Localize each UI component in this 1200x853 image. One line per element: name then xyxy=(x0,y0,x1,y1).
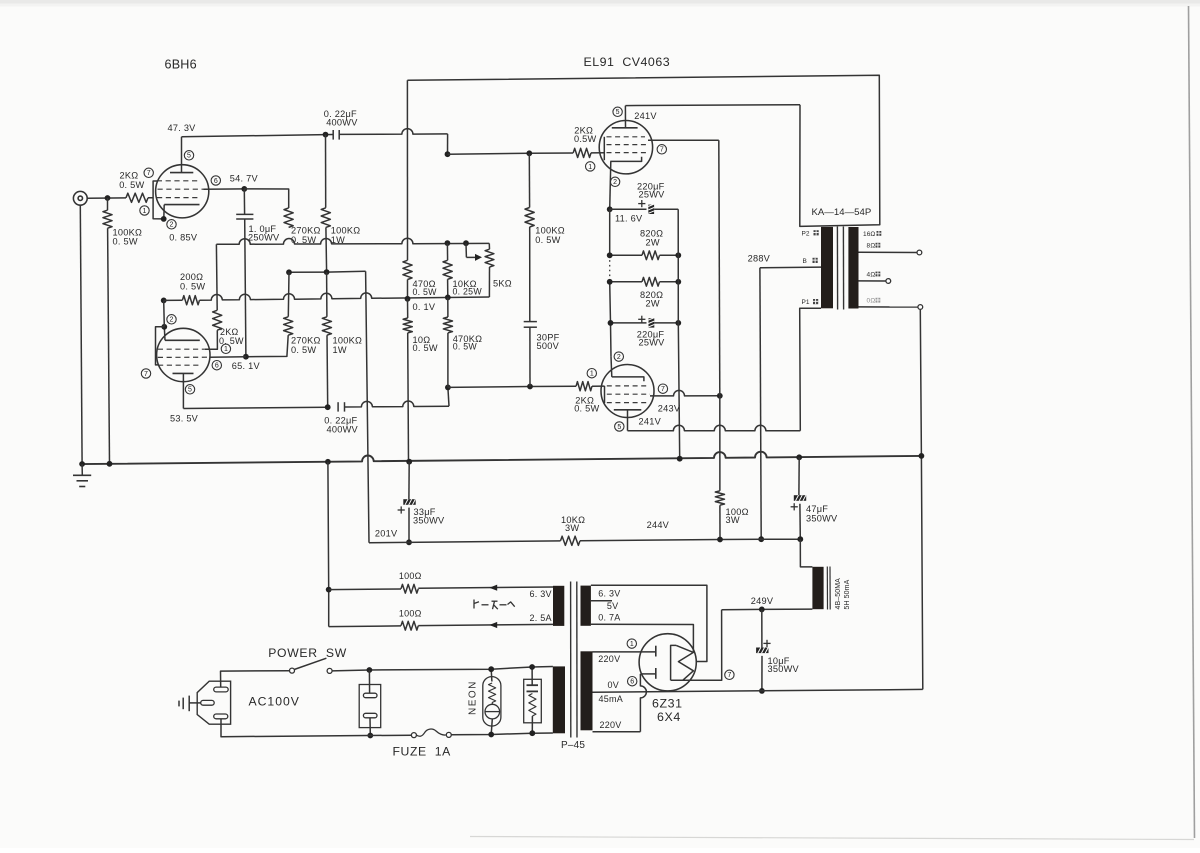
svg-text:1: 1 xyxy=(590,371,594,378)
svg-text:7: 7 xyxy=(660,147,664,154)
svg-text:270KΩ: 270KΩ xyxy=(291,225,321,235)
wire cathode bias bus xyxy=(200,293,490,300)
choke CH1 4B-50MA xyxy=(800,539,812,567)
svg-text:2W: 2W xyxy=(646,298,660,308)
neon lamp NE1 xyxy=(490,669,493,681)
scan bottom page edge line xyxy=(470,837,1194,840)
wire 4 ohm tap xyxy=(859,280,886,282)
svg-text:5V: 5V xyxy=(607,601,619,611)
svg-text:220V: 220V xyxy=(600,720,622,730)
resistor 100 ohm 3W screen feed xyxy=(719,396,721,491)
svg-text:6: 6 xyxy=(630,679,634,686)
node 220uF lower left xyxy=(608,320,614,326)
V2 grid rows xyxy=(158,348,205,350)
resistor 820 ohm 2W lower xyxy=(610,281,642,283)
V1 cathode lead xyxy=(163,205,165,219)
resistor 2K ohm 0.5W grid stopper V2 xyxy=(213,310,222,330)
svg-text:4B–50MA: 4B–50MA xyxy=(835,578,842,610)
input jack J1 xyxy=(73,191,87,205)
wire 6.3V rect heater tap xyxy=(591,585,707,661)
svg-text:4Ω: 4Ω xyxy=(867,271,876,278)
svg-text:100Ω: 100Ω xyxy=(399,608,422,618)
node 30PF bottom xyxy=(527,384,533,390)
node 30PF top xyxy=(526,150,532,156)
V4 grid bracket xyxy=(604,386,606,403)
svg-text:241V: 241V xyxy=(634,111,657,121)
scan top edge band xyxy=(0,0,1200,4)
node bus cathode net xyxy=(677,456,683,462)
svg-text:5: 5 xyxy=(188,387,192,394)
svg-text:EL91 CV4063: EL91 CV4063 xyxy=(584,55,671,69)
svg-text:65. 1V: 65. 1V xyxy=(232,361,261,371)
V2 plate bar xyxy=(173,372,194,374)
svg-text:0. 5W: 0. 5W xyxy=(413,287,438,297)
svg-text:45mA: 45mA xyxy=(599,694,624,704)
ground symbol xyxy=(81,464,83,475)
terminal 0 ohm xyxy=(918,305,923,310)
V3 pin 2 xyxy=(610,177,619,186)
resistor 100K ohm 0.5W center xyxy=(528,153,530,207)
wire rect heater return to filament xyxy=(591,624,694,652)
V1 pin 2 xyxy=(167,220,176,229)
node bus 47uF xyxy=(796,454,802,460)
arrow heater lower xyxy=(489,622,497,628)
wire fuse to transformer xyxy=(451,733,553,735)
svg-text:0. 7A: 0. 7A xyxy=(598,612,620,622)
wire plug bottom xyxy=(221,719,411,737)
wire lower cap to grid corner xyxy=(345,401,450,407)
svg-text:1: 1 xyxy=(143,208,147,215)
node RC top xyxy=(529,664,535,670)
tube V1 6BH6 envelope xyxy=(156,165,209,218)
label heater (katakana) xyxy=(473,600,475,609)
node V1 cathode xyxy=(161,216,167,222)
wire 0 ohm tap xyxy=(859,306,918,308)
V4 grid rows xyxy=(607,385,647,387)
svg-text:201V: 201V xyxy=(375,529,398,539)
wire V1 cathode to V2 xyxy=(163,300,166,326)
wire 288V riser xyxy=(760,268,761,539)
node bus 100K xyxy=(107,461,113,467)
svg-text:5KΩ: 5KΩ xyxy=(493,279,512,289)
wire screen riser xyxy=(719,140,720,395)
svg-text:0. 5W: 0. 5W xyxy=(574,403,599,413)
svg-text:241V: 241V xyxy=(639,417,662,427)
svg-text:0. 5W: 0. 5W xyxy=(535,235,560,245)
tube V5 6Z31 envelope xyxy=(639,634,696,691)
svg-text:8Ω: 8Ω xyxy=(867,243,876,250)
svg-text:2: 2 xyxy=(617,354,621,361)
wire plug top to switch xyxy=(221,671,290,687)
node 820 lower left xyxy=(607,279,613,285)
wire V4 g2 to screen riser xyxy=(650,390,720,396)
resistor 200 ohm 0.5W xyxy=(164,299,183,301)
node wire B 100K xyxy=(324,269,330,275)
V3 pin 5 xyxy=(613,107,622,116)
node bus 33uF xyxy=(406,459,412,465)
wire 5V tap stub xyxy=(591,600,612,602)
T1 secondary winding bar xyxy=(848,227,858,309)
capacitor 30PF 500V xyxy=(524,321,537,323)
svg-text:POWER SW: POWER SW xyxy=(268,646,347,660)
wire OPT P2 loop and feedback bus xyxy=(407,75,879,226)
node 820 lower right xyxy=(675,279,681,285)
node 220uF lower right xyxy=(675,320,681,326)
capacitor 220uF 25WV upper xyxy=(610,208,647,210)
svg-text:350WV: 350WV xyxy=(413,515,445,525)
node neon top xyxy=(488,666,494,672)
V1 pin 7 xyxy=(144,168,153,177)
wire switch to transformer xyxy=(332,667,553,671)
wire 201V riser xyxy=(366,271,369,543)
svg-text:6: 6 xyxy=(215,363,219,370)
arrow heater upper xyxy=(489,585,497,591)
node 10uF top xyxy=(759,607,765,613)
T2 heater winding bar xyxy=(553,586,564,626)
svg-text:6: 6 xyxy=(214,178,218,185)
wire cathode net left vertical xyxy=(609,209,611,255)
V3 plate bar xyxy=(612,127,638,129)
wire V3 grid xyxy=(448,153,574,154)
V1 pin 1 xyxy=(140,206,149,215)
wire 244V rail xyxy=(580,539,800,541)
wire jack ground drop xyxy=(80,205,82,464)
wire 8 ohm tap xyxy=(859,251,917,253)
svg-text:P1: P1 xyxy=(802,299,810,306)
V5 plate 2 bar xyxy=(655,668,657,679)
svg-text:249V: 249V xyxy=(751,596,774,606)
svg-text:47. 3V: 47. 3V xyxy=(168,123,197,133)
svg-text:1: 1 xyxy=(224,346,228,353)
wire coupling cap to grid corner xyxy=(339,129,447,135)
svg-text:5: 5 xyxy=(187,153,191,160)
fuse F1 1A xyxy=(411,733,416,738)
node 100R bottom xyxy=(717,537,723,543)
AC plug xyxy=(197,681,230,724)
svg-text:350WV: 350WV xyxy=(768,664,800,674)
ground bus xyxy=(81,452,922,464)
svg-text:400WV: 400WV xyxy=(326,118,358,128)
resistor 100K ohm 0.5W input grid leak xyxy=(107,198,109,210)
svg-text:25WV: 25WV xyxy=(639,338,666,348)
resistor 100 ohm humdinger lower xyxy=(329,625,401,628)
T2 primary winding bar xyxy=(553,666,565,733)
V1 pin 6 xyxy=(211,176,220,185)
capacitor line filter xyxy=(359,685,381,728)
svg-text:288V: 288V xyxy=(748,253,771,263)
T1 core lines xyxy=(836,227,838,310)
svg-text:0.5W: 0.5W xyxy=(574,134,597,144)
wire V4 plate to P1 riser xyxy=(628,425,801,431)
svg-text:0. 25W: 0. 25W xyxy=(453,287,483,297)
svg-text:2: 2 xyxy=(170,222,174,229)
resistor 820 ohm 2W upper xyxy=(610,254,642,256)
wire V2 plate to coupling cap xyxy=(183,407,327,408)
wire V2 g2 out xyxy=(210,356,246,359)
spark quencher RC box xyxy=(524,679,542,723)
plug earth pin xyxy=(189,702,201,704)
node wire A wiper xyxy=(463,240,469,246)
svg-text:244V: 244V xyxy=(647,520,670,530)
V4 plate lead xyxy=(627,410,629,431)
wire V4 grid xyxy=(448,386,576,387)
resistor 100K ohm 1W lower xyxy=(326,272,328,317)
wire V1 plate to coupling cap xyxy=(182,135,334,137)
V3 pin 1 xyxy=(586,162,595,171)
resistor 2K ohm 0.5W V3 grid xyxy=(573,148,591,157)
wire B plate supply 201V xyxy=(289,271,366,272)
svg-text:0. 5W: 0. 5W xyxy=(413,343,438,353)
capacitor 0.22uF 400WV lower xyxy=(337,402,339,411)
node 47uF bottom xyxy=(797,536,803,542)
V2 pin 6 xyxy=(212,361,221,370)
resistor 10K ohm 3W xyxy=(369,541,561,543)
wire OPT B to 288V riser xyxy=(760,266,821,269)
node 820 upper left xyxy=(607,252,613,258)
svg-text:2: 2 xyxy=(613,179,617,186)
node 10uF bottom xyxy=(759,688,765,694)
V2 pin 7 xyxy=(141,369,150,378)
svg-text:7: 7 xyxy=(147,170,151,177)
wire g2 to 270K corner xyxy=(244,189,288,208)
svg-text:5: 5 xyxy=(616,109,620,116)
svg-text:100KΩ: 100KΩ xyxy=(535,225,565,235)
svg-text:54. 7V: 54. 7V xyxy=(230,173,259,183)
node bus jack xyxy=(79,461,85,467)
V2 cathode bar xyxy=(165,339,200,341)
node line cap top xyxy=(367,667,373,673)
V5 pin 1 xyxy=(627,639,636,648)
svg-text:FUZE 1A: FUZE 1A xyxy=(393,745,452,759)
node RC bottom xyxy=(529,730,535,736)
wire V1 g2 out xyxy=(204,188,245,190)
svg-text:243V: 243V xyxy=(658,404,681,414)
svg-text:1: 1 xyxy=(630,641,634,648)
capacitor 220uF 25WV lower xyxy=(611,322,647,324)
svg-text:AC100V: AC100V xyxy=(249,695,300,709)
node neon bottom xyxy=(488,732,494,738)
svg-text:P–45: P–45 xyxy=(561,740,585,751)
svg-text:500V: 500V xyxy=(537,341,560,351)
svg-text:6. 3V: 6. 3V xyxy=(598,588,620,598)
V3 cathode xyxy=(610,157,641,162)
T1 primary winding bar xyxy=(821,227,833,308)
V4 plate bar xyxy=(614,409,642,411)
node line cap bottom xyxy=(367,733,373,739)
V2 plate lead xyxy=(182,373,184,408)
svg-text:2. 5A: 2. 5A xyxy=(530,613,552,623)
svg-text:2W: 2W xyxy=(646,237,660,247)
V2 pin 1 xyxy=(221,344,230,353)
svg-text:7: 7 xyxy=(661,386,665,393)
node V2 plate/100K xyxy=(325,404,331,410)
svg-text:100KΩ: 100KΩ xyxy=(333,336,363,346)
node V2 g2 xyxy=(243,354,249,360)
wire jack to grid node xyxy=(87,197,126,199)
V3 plate lead xyxy=(624,106,626,128)
svg-text:5: 5 xyxy=(617,424,621,431)
wire HV 220V bottom tap xyxy=(593,731,641,733)
svg-text:100KΩ: 100KΩ xyxy=(331,225,361,235)
wire V3 g2 to screen riser xyxy=(648,139,719,141)
tube V2 6BH6 envelope xyxy=(157,328,210,381)
resistor 270K ohm 0.5W lower xyxy=(287,272,290,317)
tube V3 EL91 envelope xyxy=(599,121,652,174)
svg-text:3W: 3W xyxy=(726,515,740,525)
svg-text:6BH6: 6BH6 xyxy=(165,58,197,72)
V5 filament zigzag xyxy=(676,645,693,680)
V1 grid bracket xyxy=(153,181,164,219)
svg-text:7: 7 xyxy=(727,672,731,679)
resistor 470K ohm 0.5W lower xyxy=(447,297,449,317)
V1 pin 5 xyxy=(184,151,193,160)
node wire A 470K xyxy=(445,240,451,246)
V4 cathode xyxy=(612,377,644,381)
node V3 cathode junction xyxy=(607,206,613,212)
resistor 100K ohm 1W upper xyxy=(325,135,327,208)
svg-text:100Ω: 100Ω xyxy=(399,571,422,581)
V3 grid bracket xyxy=(603,137,605,160)
svg-text:250WV: 250WV xyxy=(248,233,280,243)
V2 pin 2 xyxy=(167,315,176,324)
wire V3 plate 241V xyxy=(625,104,800,107)
svg-text:7: 7 xyxy=(144,371,148,378)
V1 plate bar xyxy=(170,172,193,174)
svg-text:1: 1 xyxy=(588,164,592,171)
V4 pin 5 xyxy=(615,422,624,431)
wire 249V xyxy=(722,608,813,611)
V5 cathode bracket xyxy=(671,645,677,680)
wire humdinger drop xyxy=(327,462,330,627)
node V2 cathode xyxy=(161,324,167,330)
node V4 g2 riser xyxy=(717,393,723,399)
terminal 8 ohm xyxy=(917,250,922,255)
svg-text:0. 5W: 0. 5W xyxy=(219,336,244,346)
scan right page edge line xyxy=(1189,6,1195,838)
V3 pin 7 xyxy=(657,145,666,154)
node V4 grid wire left xyxy=(445,385,451,391)
node humdinger center xyxy=(326,587,332,593)
svg-text:270KΩ: 270KΩ xyxy=(291,336,321,346)
node bus humdinger xyxy=(325,459,331,465)
svg-text:53. 5V: 53. 5V xyxy=(170,414,199,424)
svg-text:0. 5W: 0. 5W xyxy=(119,180,144,190)
node 10K bottom xyxy=(445,295,451,301)
svg-text:0. 5W: 0. 5W xyxy=(453,342,478,352)
svg-text:2: 2 xyxy=(170,317,174,324)
node V1 cathode bias xyxy=(161,298,167,304)
svg-text:400WV: 400WV xyxy=(327,425,359,435)
svg-text:3W: 3W xyxy=(565,523,579,533)
svg-text:0. 5W: 0. 5W xyxy=(291,345,316,355)
svg-text:25WV: 25WV xyxy=(639,189,666,199)
svg-text:P2: P2 xyxy=(802,230,810,237)
node V3 grid wire left xyxy=(445,151,451,157)
resistor 2K ohm 0.5W grid stopper V1 xyxy=(126,193,148,202)
node wire B 270K xyxy=(286,269,292,275)
wire A feedback to V2 grid xyxy=(216,238,489,244)
wire A drop to V2 grid resistor xyxy=(215,244,218,310)
V1 plate lead xyxy=(181,137,183,173)
node 288V riser bottom xyxy=(758,536,764,542)
V2 pin 5 xyxy=(185,385,194,394)
resistor 10K ohm 0.25W xyxy=(446,243,448,260)
capacitor 1.0uF 250WV g2 bypass xyxy=(243,189,245,214)
tube V4 EL91 envelope xyxy=(601,365,654,418)
svg-text:6. 3V: 6. 3V xyxy=(530,589,552,599)
V5 pin 7 xyxy=(725,670,734,679)
wire HV 0V bus xyxy=(593,689,923,692)
node bus right end xyxy=(919,453,925,459)
resistor 2K ohm 0.5W V4 grid xyxy=(576,382,592,391)
svg-text:1W: 1W xyxy=(333,345,347,355)
T2 core lines xyxy=(570,582,572,738)
V4 pin 7 xyxy=(658,384,667,393)
svg-text:0. 1V: 0. 1V xyxy=(413,302,436,312)
svg-text:KA—14—54P: KA—14—54P xyxy=(812,207,872,218)
svg-text:B: B xyxy=(803,258,808,265)
node 820 upper right xyxy=(675,252,681,258)
resistor 10 ohm 0.5W xyxy=(407,299,409,318)
V4 pin 1 xyxy=(587,369,596,378)
capacitor 47uF 350WV xyxy=(798,457,800,495)
wire 0 ohm to ground xyxy=(920,310,923,690)
svg-text:6X4: 6X4 xyxy=(657,710,681,724)
wire V5 cathode out xyxy=(671,610,722,680)
V4 pin 2 xyxy=(614,352,623,361)
capacitor 33uF 350WV xyxy=(408,462,410,500)
svg-text:220V: 220V xyxy=(598,654,620,664)
svg-text:16Ω: 16Ω xyxy=(863,231,875,238)
V5 pin 6 xyxy=(628,677,637,686)
node 470R bottom xyxy=(405,296,411,302)
V1 cathode bar xyxy=(164,204,199,206)
wire OPT P1 to V4 plate riser xyxy=(800,308,821,431)
svg-text:350WV: 350WV xyxy=(806,513,838,523)
svg-text:0. 5W: 0. 5W xyxy=(180,282,205,292)
T2 HV winding bar xyxy=(581,651,593,730)
svg-text:6Z31: 6Z31 xyxy=(652,697,683,711)
capacitor 0.22uF 400WV upper xyxy=(332,130,334,140)
terminal 4 ohm xyxy=(886,279,891,284)
wire cathode net right vertical xyxy=(678,209,680,458)
potentiometer 5K balance xyxy=(465,243,467,257)
node input xyxy=(105,195,111,201)
V2 grid bracket xyxy=(156,327,165,365)
node plate/100K xyxy=(323,132,329,138)
resistor 270K ohm 0.5W upper xyxy=(284,208,293,227)
V3 grid rows xyxy=(607,136,646,138)
svg-text:0. 5W: 0. 5W xyxy=(113,237,138,247)
svg-text:NEON: NEON xyxy=(468,680,479,715)
V5 plate 1 bar xyxy=(655,646,657,657)
svg-text:11. 6V: 11. 6V xyxy=(615,213,643,223)
svg-text:2KΩ: 2KΩ xyxy=(120,171,139,181)
capacitor 10uF 350WV xyxy=(761,609,763,647)
svg-text:0. 85V: 0. 85V xyxy=(169,232,198,242)
V1 grid rows xyxy=(157,180,200,182)
T2 rectifier heater winding bar xyxy=(581,586,591,626)
switch SW1 xyxy=(290,668,295,673)
svg-text:0Ω: 0Ω xyxy=(867,298,876,305)
resistor 470 ohm 0.5W xyxy=(406,80,408,260)
node V1 g2 xyxy=(241,186,247,192)
node 33uF bottom xyxy=(406,539,412,545)
svg-text:0V: 0V xyxy=(608,680,620,690)
svg-text:5H 50mA: 5H 50mA xyxy=(844,579,851,609)
resistor 100 ohm humdinger upper xyxy=(329,588,401,591)
V2 cathode lead xyxy=(163,327,166,341)
